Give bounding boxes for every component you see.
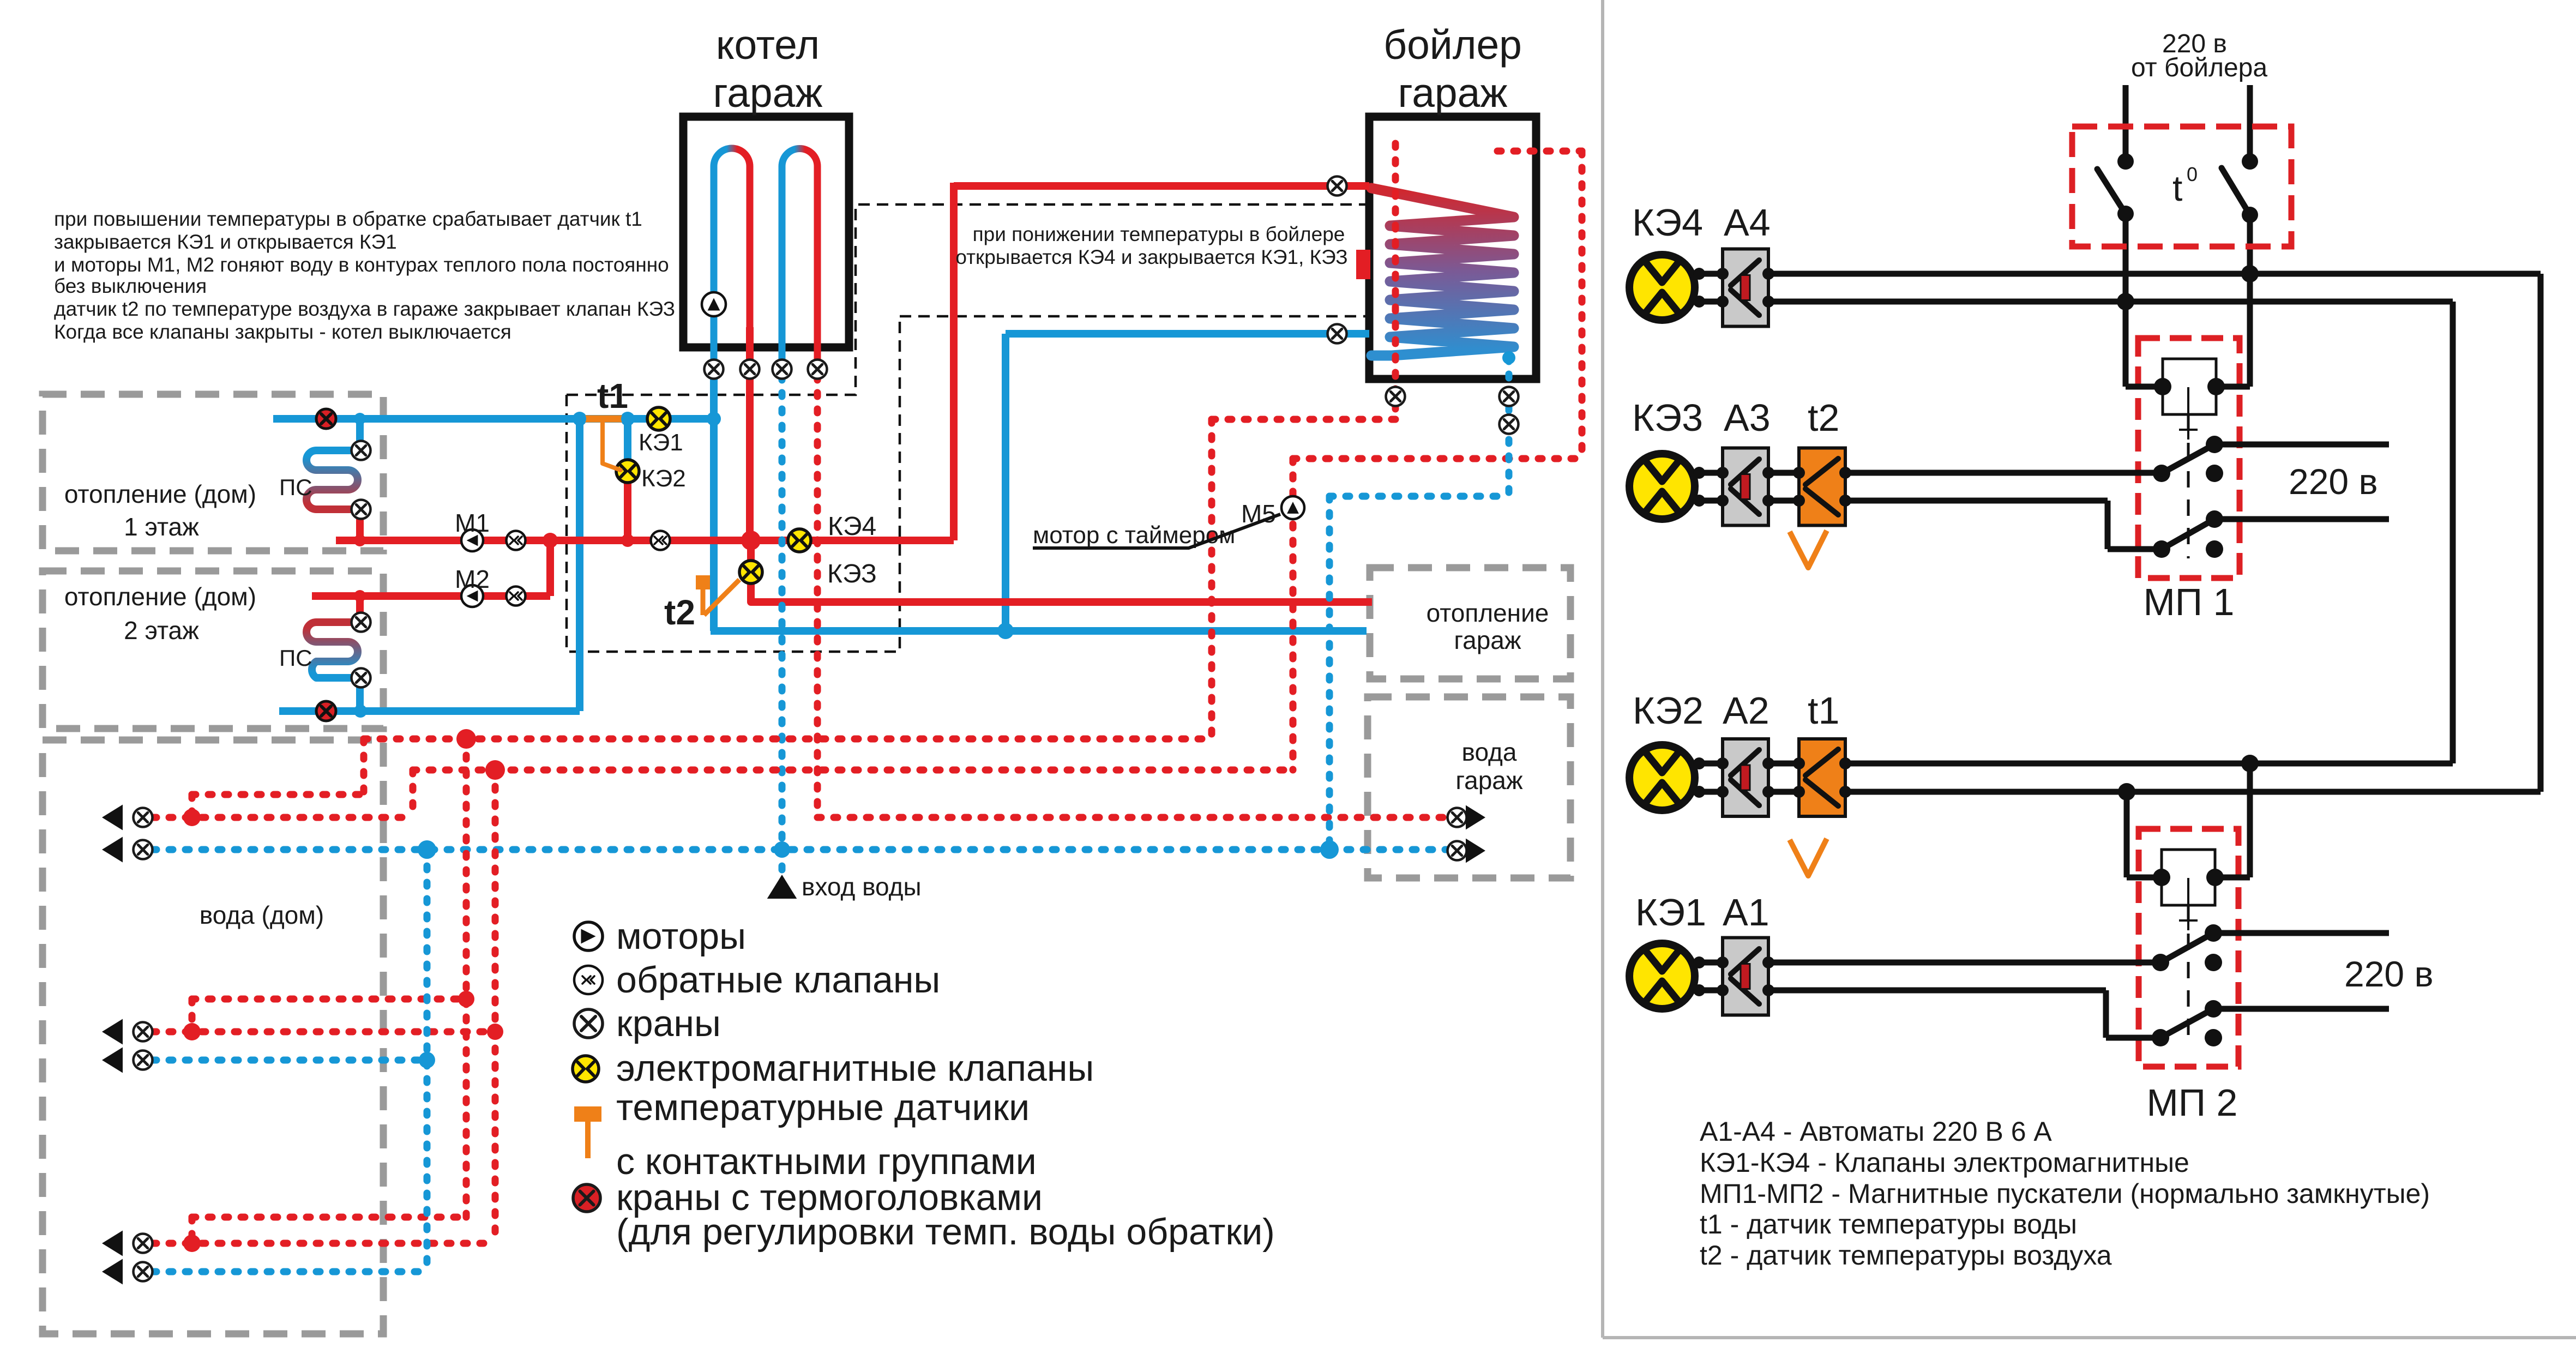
- svg-text:t2: t2: [664, 593, 695, 632]
- svg-text:и моторы М1, М2 гоняют воду в: и моторы М1, М2 гоняют воду в контурах т…: [54, 254, 669, 276]
- svg-text:отопление: отопление: [1427, 599, 1549, 627]
- svg-text:датчик t2 по температуре возду: датчик t2 по температуре воздуха в гараж…: [54, 298, 675, 320]
- svg-text:М1: М1: [455, 509, 490, 537]
- svg-text:гараж: гараж: [1455, 766, 1523, 795]
- svg-text:t1 - датчик температуры воды: t1 - датчик температуры воды: [1700, 1209, 2077, 1239]
- svg-text:без выключения: без выключения: [54, 275, 207, 297]
- svg-text:с контактными группами: с контактными группами: [616, 1141, 1037, 1182]
- svg-text:вход воды: вход воды: [802, 872, 922, 901]
- svg-text:бойлер: бойлер: [1383, 22, 1522, 68]
- svg-text:220 в: 220 в: [2344, 954, 2434, 994]
- svg-text:2 этаж: 2 этаж: [124, 616, 199, 645]
- svg-text:А1-А4 - Автоматы 220 В 6 А: А1-А4 - Автоматы 220 В 6 А: [1700, 1116, 2052, 1147]
- svg-text:МП 2: МП 2: [2146, 1081, 2237, 1124]
- svg-text:вода: вода: [1462, 738, 1517, 766]
- svg-text:температурные датчики: температурные датчики: [616, 1087, 1030, 1128]
- svg-text:1 этаж: 1 этаж: [124, 513, 199, 541]
- svg-text:КЭ1: КЭ1: [639, 429, 683, 456]
- svg-text:t2 - датчик температуры воздух: t2 - датчик температуры воздуха: [1700, 1240, 2112, 1271]
- svg-text:КЭ3: КЭ3: [1632, 396, 1703, 439]
- svg-text:краны: краны: [616, 1003, 721, 1044]
- svg-text:КЭ2: КЭ2: [641, 465, 686, 492]
- svg-text:КЭ2: КЭ2: [1633, 689, 1704, 732]
- svg-text:t2: t2: [1808, 396, 1839, 439]
- svg-text:гараж: гараж: [1398, 70, 1507, 116]
- svg-text:котел: котел: [716, 22, 820, 68]
- svg-text:Когда все клапаны закрыты - ко: Когда все клапаны закрыты - котел выключ…: [54, 321, 511, 343]
- svg-text:от бойлера: от бойлера: [2131, 53, 2267, 82]
- svg-text:КЭ4: КЭ4: [828, 512, 876, 541]
- svg-text:моторы: моторы: [616, 916, 746, 957]
- svg-text:вода (дом): вода (дом): [200, 901, 324, 929]
- svg-text:А3: А3: [1724, 396, 1771, 439]
- svg-text:гараж: гараж: [713, 70, 822, 116]
- svg-text:t1: t1: [1808, 689, 1839, 732]
- svg-text:отопление (дом): отопление (дом): [64, 480, 256, 508]
- svg-text:КЭ1: КЭ1: [1635, 891, 1706, 934]
- svg-text:мотор с таймером: мотор с таймером: [1033, 522, 1235, 549]
- svg-text:А2: А2: [1723, 689, 1770, 732]
- svg-text:М2: М2: [455, 565, 490, 593]
- svg-text:ПС: ПС: [279, 645, 312, 671]
- svg-text:открывается КЭ4 и закрывается: открывается КЭ4 и закрывается КЭ1, КЭЗ: [955, 246, 1347, 268]
- svg-text:А1: А1: [1723, 891, 1770, 934]
- svg-text:КЭ4: КЭ4: [1632, 201, 1703, 244]
- svg-text:обратные клапаны: обратные клапаны: [616, 959, 940, 1001]
- svg-text:отопление (дом): отопление (дом): [64, 582, 256, 611]
- svg-text:гараж: гараж: [1454, 626, 1521, 654]
- svg-text:t1: t1: [597, 376, 628, 416]
- svg-text:0: 0: [2187, 163, 2198, 185]
- svg-text:при повышении температуры в об: при повышении температуры в обратке сраб…: [54, 208, 642, 230]
- svg-text:220 в: 220 в: [2289, 461, 2378, 502]
- svg-text:t: t: [2172, 168, 2182, 208]
- svg-text:ПС: ПС: [279, 474, 312, 500]
- svg-text:КЭЗ: КЭЗ: [827, 559, 877, 588]
- svg-text:МП1-МП2 - Магнитные пускатели: МП1-МП2 - Магнитные пускатели (нормально…: [1700, 1178, 2430, 1209]
- svg-text:МП 1: МП 1: [2143, 581, 2234, 623]
- svg-text:А4: А4: [1724, 201, 1771, 244]
- svg-text:КЭ1-КЭ4 - Клапаны электромагни: КЭ1-КЭ4 - Клапаны электромагнитные: [1700, 1147, 2189, 1178]
- svg-text:закрывается КЭ1 и открывается: закрывается КЭ1 и открывается КЭ1: [54, 231, 397, 253]
- svg-text:электромагнитные клапаны: электромагнитные клапаны: [616, 1048, 1094, 1089]
- svg-text:(для регулировки темп. воды об: (для регулировки темп. воды обратки): [616, 1211, 1275, 1253]
- svg-text:при понижении температуры в бо: при понижении температуры в бойлере: [973, 223, 1345, 245]
